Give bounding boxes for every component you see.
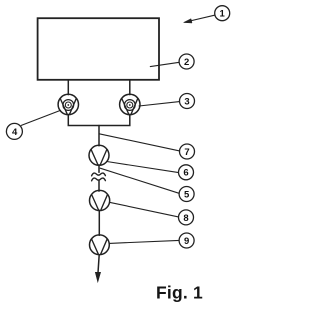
svg-text:3: 3 <box>184 96 189 107</box>
svg-text:9: 9 <box>184 236 189 247</box>
svg-text:7: 7 <box>184 147 189 158</box>
svg-text:1: 1 <box>220 9 226 20</box>
svg-text:Fig. 1: Fig. 1 <box>156 283 203 303</box>
svg-text:4: 4 <box>12 127 18 138</box>
svg-text:6: 6 <box>183 168 188 179</box>
svg-text:2: 2 <box>184 57 189 68</box>
svg-text:8: 8 <box>183 213 188 224</box>
svg-text:5: 5 <box>184 189 190 200</box>
